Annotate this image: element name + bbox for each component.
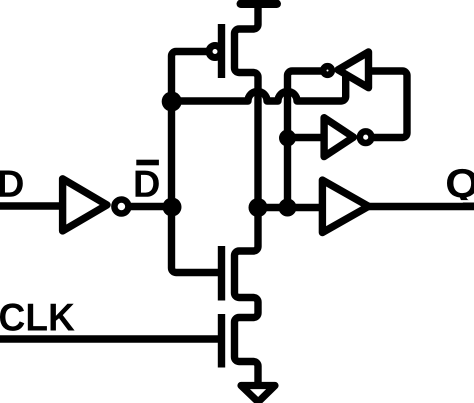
- wire storage node: top elbow to Q-line: [288, 71, 323, 208]
- wire U2 input loop from U3 output: [369, 71, 407, 138]
- transistor M3 NMOS gate bar: [218, 314, 225, 368]
- node junction dot Dbar: [163, 198, 182, 217]
- wire CLK input: [0, 335, 219, 342]
- VDD rail: [241, 0, 277, 8]
- label Dbar: [136, 171, 159, 197]
- node junction dot storage/Q-line left: [249, 198, 268, 217]
- wire Q output: [364, 203, 474, 210]
- transistor M1 PMOS gate bar: [218, 24, 225, 78]
- wire D input: [0, 202, 64, 209]
- inverter U2 triangle (keeper top, left-pointing): [338, 52, 369, 88]
- node junction dot Dbar/hop-wire: [162, 92, 182, 112]
- label CLK: [0, 303, 75, 330]
- wire Q-line storage node to buffer: [258, 204, 322, 211]
- label Q: [447, 169, 474, 205]
- Q label tail trim patch: [448, 200, 474, 202]
- wire keeper lower inverter input: [288, 134, 325, 141]
- wire VDD stub + PMOS channel + storage-node vertical + NMOS stack chain to ground: [235, 2, 259, 385]
- label D: [0, 171, 23, 197]
- node junction dot storage/Q-line right: [279, 199, 297, 217]
- wire Dbar to keeper enable (with two hops): [172, 76, 346, 101]
- inverter U3 output bubble: [360, 131, 372, 143]
- node junction dot keeper input: [279, 130, 296, 147]
- wire U1 output to Dbar node: [128, 203, 172, 210]
- buffer U4 triangle (Q output buffer): [322, 180, 368, 232]
- wire Dbar net: PMOS gate, vertical, M2 gate: [172, 52, 219, 273]
- inverter U1 output bubble: [114, 200, 128, 214]
- ground symbol: [241, 386, 275, 403]
- transistor M2 NMOS gate bar: [218, 246, 225, 301]
- inverter U1 triangle (D inverter): [63, 179, 107, 231]
- transistor M1 PMOS gate bubble: [209, 46, 221, 58]
- inverter U3 triangle (keeper bottom, right-pointing): [324, 118, 353, 157]
- inverter U2 output bubble: [323, 66, 332, 75]
